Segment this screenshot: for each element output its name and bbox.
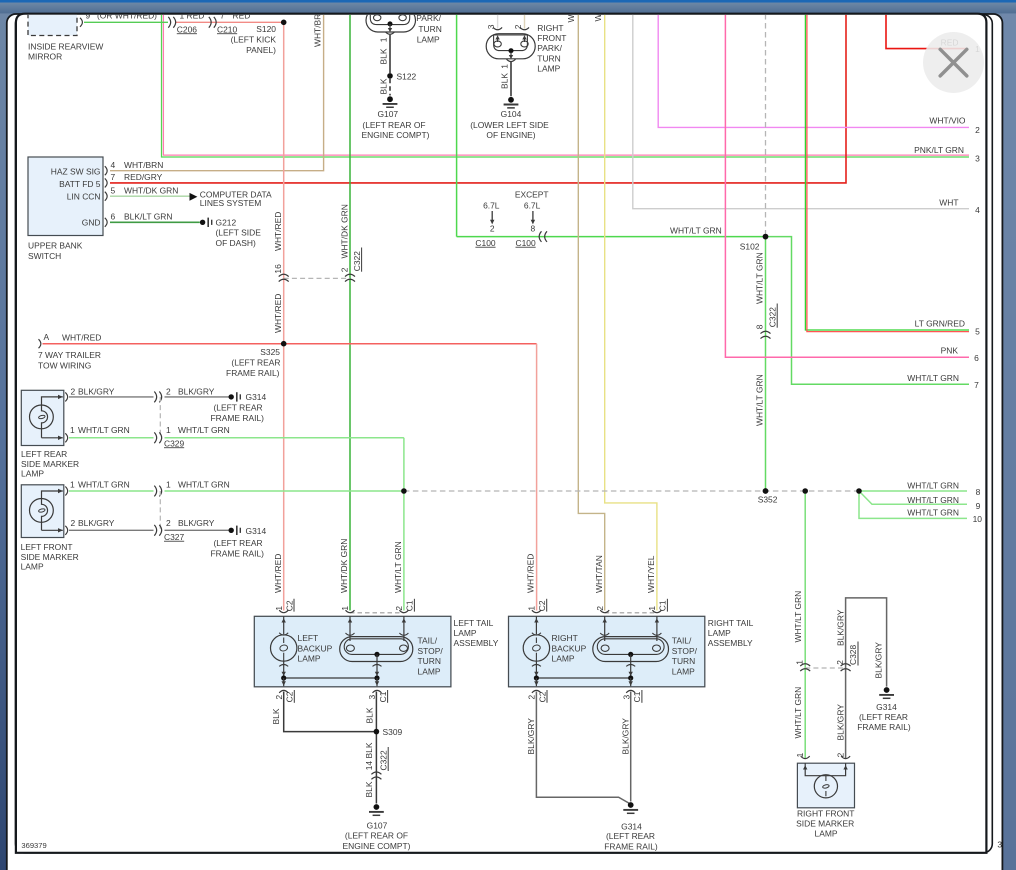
splice S309 xyxy=(374,729,380,735)
svg-text:LAMP: LAMP xyxy=(417,35,440,45)
svg-text:2: 2 xyxy=(71,518,76,528)
svg-text:G314: G314 xyxy=(876,702,897,712)
svg-text:(LEFT REAR OF: (LEFT REAR OF xyxy=(362,120,425,130)
connector C327 lower half (pin 2) xyxy=(154,525,161,536)
left tail bottom pin cups xyxy=(279,690,381,693)
svg-text:2: 2 xyxy=(274,695,284,700)
svg-text:1: 1 xyxy=(274,606,284,611)
right backup lamp lower link to junction xyxy=(535,661,537,678)
right front side marker pin cups xyxy=(801,756,850,759)
svg-text:BLK: BLK xyxy=(364,707,374,723)
svg-text:G314: G314 xyxy=(621,821,642,831)
left front marker pin 2 cup xyxy=(65,526,67,535)
svg-text:WHT/RED: WHT/RED xyxy=(62,333,101,343)
svg-text:BLK/GRY: BLK/GRY xyxy=(78,386,115,396)
wire RED vertical x886 to terminal 1 xyxy=(886,14,967,49)
wire WHT/BRN from switch pin 4 up to page top xyxy=(110,14,324,171)
svg-text:WHT/LT GRN: WHT/LT GRN xyxy=(755,374,765,426)
svg-text:(LEFT REAR: (LEFT REAR xyxy=(214,402,263,412)
svg-text:BLK/GRY: BLK/GRY xyxy=(78,518,115,528)
wire WHT/LT GRN left front side marker through C327 to junction xyxy=(69,490,404,492)
svg-text:INSIDE REARVIEW: INSIDE REARVIEW xyxy=(28,42,103,52)
ground G107 (engine compt, upper) xyxy=(362,96,430,140)
svg-text:WHT/LT GRN: WHT/LT GRN xyxy=(793,591,803,643)
wire dashed connector link C328 xyxy=(805,667,845,669)
close button xyxy=(923,32,984,93)
svg-text:(LEFT SIDE: (LEFT SIDE xyxy=(216,228,262,238)
label EXCEPT 6.7L with arrow to pin 8 C100 xyxy=(515,190,549,248)
svg-text:5: 5 xyxy=(111,185,116,195)
wire BLK/GRY right tail lamp pin 2 C2 to ground G314 xyxy=(536,692,629,804)
svg-text:TOW WIRING: TOW WIRING xyxy=(38,360,91,370)
svg-text:LAMP: LAMP xyxy=(708,628,731,638)
left backup lamp lower link to junction xyxy=(283,661,285,678)
svg-text:ASSEMBLY: ASSEMBLY xyxy=(708,638,753,648)
left rear marker pin 2 cup xyxy=(65,392,67,401)
ground G314 (left rear frame rail, bottom) xyxy=(604,802,658,851)
wire RED/GRY from switch pin 7 right and up to page top xyxy=(110,14,846,183)
wire TAN feed to right front park/turn lamp pin 2 xyxy=(524,14,526,29)
svg-text:3: 3 xyxy=(486,24,496,29)
svg-text:C329: C329 xyxy=(164,438,184,448)
splice S325 xyxy=(281,341,287,347)
svg-text:3: 3 xyxy=(622,695,632,700)
svg-text:UPPER BANK: UPPER BANK xyxy=(28,241,83,251)
svg-text:WHT/VIO: WHT/VIO xyxy=(929,116,966,126)
svg-text:BLK/LT GRN: BLK/LT GRN xyxy=(124,211,172,221)
svg-text:S309: S309 xyxy=(383,727,403,737)
right front side marker lamp (component box) xyxy=(796,763,854,838)
svg-text:LAMP: LAMP xyxy=(418,666,441,676)
right tail junction bus xyxy=(536,677,630,679)
svg-text:2: 2 xyxy=(166,518,171,528)
svg-text:WHT/DK GRN: WHT/DK GRN xyxy=(124,185,178,195)
svg-text:RIGHT: RIGHT xyxy=(552,633,578,643)
svg-text:WHT/DK GRN: WHT/DK GRN xyxy=(339,539,349,593)
svg-text:C1: C1 xyxy=(378,691,388,702)
svg-text:SIDE MARKER: SIDE MARKER xyxy=(796,819,854,829)
svg-text:RED/GRY: RED/GRY xyxy=(124,172,163,182)
wire WHT/DK GRN pale from switch pin 5 to data-line triangle xyxy=(110,195,190,197)
wire BLK/GRY left front side marker to G314 xyxy=(69,529,229,531)
computer data lines system arrow xyxy=(190,190,273,208)
svg-text:FRONT: FRONT xyxy=(537,33,566,43)
connector C206 xyxy=(168,11,204,35)
app background right panel xyxy=(1002,0,1016,870)
svg-text:8: 8 xyxy=(531,224,536,234)
svg-text:WHT/LT GRN: WHT/LT GRN xyxy=(793,687,803,739)
wire BLK/LT GRN from switch pin 6 to G212 xyxy=(110,221,200,223)
wire dashed connector C1 span right tail lamp xyxy=(605,612,657,614)
svg-text:1: 1 xyxy=(70,480,75,490)
svg-text:RIGHT: RIGHT xyxy=(537,23,563,33)
connector C329 dashed link xyxy=(159,397,161,438)
svg-text:6.7L: 6.7L xyxy=(483,200,500,210)
svg-text:C2: C2 xyxy=(537,691,547,702)
svg-text:BACKUP: BACKUP xyxy=(552,643,587,653)
left tail junction bus xyxy=(284,677,377,679)
left tail lamp assembly (component box) xyxy=(254,616,498,687)
svg-text:TURN: TURN xyxy=(672,656,695,666)
svg-text:PNK: PNK xyxy=(941,346,959,356)
svg-text:(LEFT KICK: (LEFT KICK xyxy=(231,34,277,44)
wire WHT/LT GRN terminal 9 xyxy=(859,491,967,504)
svg-text:SIDE MARKER: SIDE MARKER xyxy=(21,552,79,562)
svg-text:10: 10 xyxy=(973,514,983,524)
svg-text:1: 1 xyxy=(647,606,657,611)
svg-text:HAZ SW SIG: HAZ SW SIG xyxy=(51,166,101,176)
svg-text:ASSEMBLY: ASSEMBLY xyxy=(454,638,499,648)
svg-text:C322: C322 xyxy=(767,307,777,327)
right tail bottom pin cups xyxy=(532,690,635,693)
svg-text:C210: C210 xyxy=(217,24,237,34)
svg-text:WHT/LT GRN: WHT/LT GRN xyxy=(907,495,959,505)
wire WHT/RED from 7-way trailer connector through S325 to corner xyxy=(43,343,537,345)
wire WHT/YEL vertical to right tail lamp pin 1 C1 xyxy=(605,14,657,611)
svg-text:STOP/: STOP/ xyxy=(672,646,698,656)
svg-text:WHT/RED: WHT/RED xyxy=(273,294,283,333)
switch pin 5 cup xyxy=(105,192,107,201)
svg-text:PANEL): PANEL) xyxy=(246,45,276,55)
svg-text:1: 1 xyxy=(527,606,537,611)
svg-text:5: 5 xyxy=(975,327,980,337)
svg-text:LAMP: LAMP xyxy=(552,654,575,664)
wire BLK/GRY right tail lamp pin 3 C1 to ground G314 xyxy=(630,692,632,802)
svg-text:6: 6 xyxy=(111,211,116,221)
wire dashed drop from top to splice S102 xyxy=(765,14,767,237)
wire PNK/LT GRN (pink stripe) xyxy=(163,14,969,155)
svg-text:C322: C322 xyxy=(352,251,362,271)
wire WHT/LT GRN terminal 10 xyxy=(859,491,967,518)
svg-text:2: 2 xyxy=(595,606,605,611)
svg-text:FRAME RAIL): FRAME RAIL) xyxy=(604,841,658,851)
svg-text:(LEFT REAR: (LEFT REAR xyxy=(214,538,263,548)
wire dashed connector C1 span left tail lamp xyxy=(350,612,404,614)
inside rearview mirror (component box) xyxy=(28,8,103,61)
right tail/stop center link to junction xyxy=(630,655,632,678)
svg-text:LAMP: LAMP xyxy=(298,654,321,664)
svg-text:2: 2 xyxy=(975,125,980,135)
svg-text:BLK/GRY: BLK/GRY xyxy=(835,704,845,741)
header top blue line xyxy=(0,0,1016,3)
splice S102 xyxy=(763,234,769,240)
splice S122 xyxy=(387,73,393,79)
wire WHT/DK GRN vertical x350 top to left tail lamp pin 1 C1 xyxy=(349,14,351,611)
right backup lamp (bulb) xyxy=(523,616,586,663)
svg-text:(LOWER LEFT SIDE: (LOWER LEFT SIDE xyxy=(470,120,549,130)
wire PNK/LT GRN vertical+horizontal to terminal 3 (green stripe) xyxy=(162,14,970,157)
svg-text:EXCEPT: EXCEPT xyxy=(515,190,549,200)
svg-text:G212: G212 xyxy=(216,217,237,227)
svg-text:7: 7 xyxy=(974,380,979,390)
svg-text:WHT/DK GRN: WHT/DK GRN xyxy=(339,204,349,258)
svg-text:ENGINE COMPT): ENGINE COMPT) xyxy=(343,841,411,851)
svg-text:7: 7 xyxy=(111,172,116,182)
connector C322 on WHT/DK GRN (pin 2) xyxy=(339,204,362,281)
svg-text:BLK/GRY: BLK/GRY xyxy=(178,386,215,396)
svg-text:(LEFT REAR: (LEFT REAR xyxy=(859,712,908,722)
svg-text:PARK/: PARK/ xyxy=(537,43,562,53)
left front marker pin 1 cup xyxy=(65,487,67,496)
svg-text:3: 3 xyxy=(975,154,980,164)
svg-text:G107: G107 xyxy=(367,820,388,830)
svg-text:WHT/LT GRN: WHT/LT GRN xyxy=(907,508,959,518)
svg-text:A: A xyxy=(44,332,50,342)
svg-text:OF DASH): OF DASH) xyxy=(216,238,257,248)
svg-text:C327: C327 xyxy=(164,532,184,542)
wire WHT/RED from S120 down through C322 and S325 to left tail lamp pin 1 C2 xyxy=(283,22,285,610)
svg-text:BLK: BLK xyxy=(379,48,389,64)
wire BLK right front park/turn lamp to ground G104 xyxy=(510,62,512,97)
svg-text:FRAME RAIL): FRAME RAIL) xyxy=(857,722,911,732)
svg-text:BLK: BLK xyxy=(500,73,510,89)
svg-text:WHT/RED: WHT/RED xyxy=(526,554,536,593)
left backup lamp (bulb) xyxy=(271,616,333,663)
connector C322 on BLK wire xyxy=(371,772,381,779)
svg-text:(LEFT REAR: (LEFT REAR xyxy=(231,358,280,368)
svg-text:LINES SYSTEM: LINES SYSTEM xyxy=(200,198,261,208)
svg-text:1: 1 xyxy=(166,480,171,490)
svg-text:6: 6 xyxy=(974,353,979,363)
wire LT GRN/RED to terminal 5 (red stripe) xyxy=(807,14,969,332)
svg-text:TAIL/: TAIL/ xyxy=(418,636,438,646)
connector C327 dashed link xyxy=(159,491,161,530)
svg-text:LAMP: LAMP xyxy=(21,468,44,478)
svg-text:LAMP: LAMP xyxy=(454,628,477,638)
left front side marker lamp (component box) xyxy=(21,485,79,572)
svg-text:RIGHT TAIL: RIGHT TAIL xyxy=(708,618,754,628)
right tail/stop/turn lamp (dual filament bulb) xyxy=(593,616,698,676)
svg-text:WHT/LT GRN: WHT/LT GRN xyxy=(907,373,959,383)
label 6.7L with arrow to pin 2 C100 xyxy=(475,200,499,248)
pin 3 cup and label xyxy=(493,27,502,29)
svg-text:1: 1 xyxy=(379,37,389,42)
svg-text:8: 8 xyxy=(976,487,981,497)
wire WHT feed to right front park/turn lamp pin 3 xyxy=(497,14,499,29)
svg-text:LIN CCN: LIN CCN xyxy=(67,191,101,201)
right front park/turn lamp (component) xyxy=(486,23,566,74)
svg-text:S120: S120 xyxy=(256,24,276,34)
switch pin 7 cup xyxy=(105,178,107,187)
wire BLK/GRY left rear side marker to G314 xyxy=(69,396,229,398)
svg-text:S352: S352 xyxy=(758,495,778,505)
svg-text:7 WAY TRAILER: 7 WAY TRAILER xyxy=(38,350,101,360)
connector C322 on WHT/LT GRN (pin 8) xyxy=(755,252,778,426)
connector C329 upper half (pin 2) xyxy=(154,392,161,403)
svg-text:WHT/BRN: WHT/BRN xyxy=(124,160,163,170)
park/turn lamp (component) xyxy=(366,6,442,45)
svg-text:BLK: BLK xyxy=(364,781,374,797)
right tail lamp assembly (component box) xyxy=(509,616,754,687)
svg-text:MIRROR: MIRROR xyxy=(28,51,62,61)
svg-text:WHT/LT GRN: WHT/LT GRN xyxy=(78,480,130,490)
ground G314 splice type (left rear frame rail) xyxy=(211,392,267,423)
upper bank switch (component box) xyxy=(28,157,103,261)
svg-text:BLK/GRY: BLK/GRY xyxy=(526,718,536,755)
svg-text:WHT/LT GRN: WHT/LT GRN xyxy=(78,425,130,435)
svg-text:BLK/GRY: BLK/GRY xyxy=(178,518,215,528)
svg-text:1: 1 xyxy=(500,64,510,69)
svg-text:C100: C100 xyxy=(475,238,495,248)
svg-text:LAMP: LAMP xyxy=(815,828,838,838)
left tail/stop center link to junction xyxy=(376,655,378,678)
wire WHT vertical x632.8 to terminal 4 xyxy=(633,14,969,209)
junction dot on dashed bus x403.9 xyxy=(401,488,407,494)
svg-text:2: 2 xyxy=(513,24,523,29)
wire dashed connector link C322 xyxy=(284,277,350,279)
connector arcs on C100 wire xyxy=(539,231,547,242)
svg-text:C328: C328 xyxy=(848,645,858,665)
right tail entry cups xyxy=(532,610,662,613)
svg-text:TURN: TURN xyxy=(418,656,441,666)
ground G314 splice type (left front marker) xyxy=(211,526,267,559)
svg-text:C1: C1 xyxy=(405,600,415,611)
svg-text:(LEFT REAR: (LEFT REAR xyxy=(606,831,655,841)
wire WHT/VIO vertical x658.2 to terminal 2 xyxy=(658,14,969,127)
svg-text:LEFT FRONT: LEFT FRONT xyxy=(21,542,73,552)
svg-text:2: 2 xyxy=(490,224,495,234)
pin 2 cup and label xyxy=(520,27,529,29)
svg-text:GND: GND xyxy=(82,218,101,228)
svg-text:C206: C206 xyxy=(177,24,197,34)
svg-text:BATT FD 5: BATT FD 5 xyxy=(59,179,101,189)
svg-text:C322: C322 xyxy=(378,750,388,770)
wire BLK left tail lamp pin 2 C2 down to S309 xyxy=(284,692,377,732)
ground G314 (right front marker branch) xyxy=(857,687,911,732)
svg-text:S102: S102 xyxy=(740,242,760,252)
wire WHT/LT GRN vertical x456.6 to C100 line xyxy=(456,14,458,237)
ground G107 (left rear of engine compt, bottom) xyxy=(343,804,411,851)
svg-text:WHT/LT GRN: WHT/LT GRN xyxy=(178,425,230,435)
wire RED from C206 through C210 to splice S120 xyxy=(176,21,284,23)
switch pin 6 cup xyxy=(105,218,107,227)
svg-text:2: 2 xyxy=(339,267,349,272)
wire WHT/LT GRN S102 to corner x791.5 xyxy=(766,237,970,385)
header band xyxy=(0,3,1016,14)
svg-text:369379: 369379 xyxy=(21,841,46,850)
svg-text:SIDE MARKER: SIDE MARKER xyxy=(21,459,79,469)
svg-text:4: 4 xyxy=(111,160,116,170)
svg-text:2: 2 xyxy=(527,695,537,700)
svg-text:LAMP: LAMP xyxy=(672,666,695,676)
left tail/stop/turn lamp (dual filament bulb) xyxy=(340,616,444,676)
wire WHT/LT GRN S102 down to splice S352 xyxy=(765,237,767,491)
wire WHT/LT GRN left rear side marker through C329 to corner x403.9 xyxy=(69,437,404,439)
wire green from inside rearview mirror pin 9 xyxy=(84,21,168,23)
left tail entry cups xyxy=(279,610,408,613)
svg-text:1: 1 xyxy=(795,752,805,757)
svg-text:TURN: TURN xyxy=(418,24,441,34)
right tail exits to bottom pins xyxy=(536,678,630,686)
svg-text:16: 16 xyxy=(273,264,283,274)
svg-text:S122: S122 xyxy=(397,72,417,82)
svg-text:2: 2 xyxy=(836,752,846,757)
svg-text:WHT: WHT xyxy=(939,198,958,208)
svg-text:LEFT TAIL: LEFT TAIL xyxy=(454,618,494,628)
svg-text:FRAME RAIL): FRAME RAIL) xyxy=(211,548,265,558)
svg-text:WHT/YEL: WHT/YEL xyxy=(646,555,656,593)
park/turn lamp pin 1 cup xyxy=(386,32,395,34)
wire WHT/RED drop to right tail lamp pin 1 C2 xyxy=(536,344,538,611)
svg-text:RIGHT FRONT: RIGHT FRONT xyxy=(797,809,855,819)
svg-text:8: 8 xyxy=(755,324,765,329)
svg-text:2: 2 xyxy=(71,386,76,396)
pin 1 arrow and cup xyxy=(510,52,512,55)
splice S120 xyxy=(281,20,287,26)
wire BLK dashed S122 to ground xyxy=(389,79,391,96)
wire WHT/LT GRN terminal 8 xyxy=(859,490,967,492)
svg-text:C2: C2 xyxy=(537,600,547,611)
svg-text:WHT/LT GRN: WHT/LT GRN xyxy=(393,541,403,593)
svg-text:PNK/LT GRN: PNK/LT GRN xyxy=(914,145,964,155)
splice S325 label xyxy=(226,347,280,378)
svg-text:3: 3 xyxy=(367,695,377,700)
svg-text:2: 2 xyxy=(394,606,404,611)
wire BLK left tail lamp pin 3 C1 down to S309 xyxy=(375,692,377,732)
svg-text:G314: G314 xyxy=(246,526,267,536)
wire BLK from S309 through C322 to ground G107 xyxy=(375,732,377,804)
wire BLK/GRY right front side marker loop to G314 xyxy=(846,598,887,759)
svg-text:C100: C100 xyxy=(516,238,536,248)
svg-text:2: 2 xyxy=(166,386,171,396)
svg-text:LEFT REAR: LEFT REAR xyxy=(21,449,67,459)
svg-text:BLK: BLK xyxy=(379,78,389,94)
mirror connector cup xyxy=(80,18,82,27)
wire WHT/TAN vertical to right tail lamp pin 2 xyxy=(578,14,604,611)
branch dot x805.2 xyxy=(802,488,808,494)
svg-text:STOP/: STOP/ xyxy=(418,646,444,656)
svg-text:LAMP: LAMP xyxy=(21,562,44,572)
svg-text:LT GRN/RED: LT GRN/RED xyxy=(915,319,965,329)
left rear marker pin 1 cup xyxy=(65,433,67,442)
svg-text:TURN: TURN xyxy=(537,53,560,63)
7 way trailer tow wiring (component) xyxy=(38,332,101,370)
svg-text:G104: G104 xyxy=(501,109,522,119)
left tail exits to bottom pins xyxy=(284,678,377,686)
svg-text:6.7L: 6.7L xyxy=(524,200,541,210)
svg-text:BLK: BLK xyxy=(364,742,374,758)
wire WHT/LT GRN corner down to junction and left tail lamp pin 2 C1 xyxy=(403,438,405,611)
svg-text:LAMP: LAMP xyxy=(537,64,560,74)
svg-text:WHT/RED: WHT/RED xyxy=(273,212,283,251)
switch pin 4 cup xyxy=(105,166,107,175)
ground G104 xyxy=(470,97,549,140)
svg-text:BACKUP: BACKUP xyxy=(298,643,333,653)
svg-text:FRAME RAIL): FRAME RAIL) xyxy=(211,413,265,423)
svg-text:SWITCH: SWITCH xyxy=(28,251,61,261)
ground G212 (splice type) xyxy=(200,217,261,247)
svg-text:TAIL/: TAIL/ xyxy=(672,636,692,646)
svg-text:1: 1 xyxy=(166,425,171,435)
svg-text:G314: G314 xyxy=(246,392,267,402)
connector C210 xyxy=(209,11,251,35)
svg-text:S325: S325 xyxy=(260,347,280,357)
wire dashed bus from junction x403.9 through S352 to branch dots xyxy=(404,490,859,492)
connector C327 upper half (pin 1) xyxy=(154,486,161,497)
wire WHT/LT GRN branch down to right front side marker pin 1 xyxy=(804,491,806,759)
svg-text:C1: C1 xyxy=(658,600,668,611)
wire WHT/LT GRN C100 horizontal to splice S102 xyxy=(457,236,766,238)
svg-text:WHT/RED: WHT/RED xyxy=(273,554,283,593)
wire LT GRN/RED to terminal 5 (green stripe) xyxy=(805,14,969,330)
svg-text:3: 3 xyxy=(997,840,1002,850)
svg-text:FRAME RAIL): FRAME RAIL) xyxy=(226,368,280,378)
left rear side marker lamp (component box) xyxy=(21,390,79,478)
svg-text:WHT/LT GRN: WHT/LT GRN xyxy=(907,481,959,491)
wire BLK park/turn lamp to S122 xyxy=(389,35,391,74)
svg-text:BLK: BLK xyxy=(271,708,281,724)
svg-text:14: 14 xyxy=(364,761,374,771)
